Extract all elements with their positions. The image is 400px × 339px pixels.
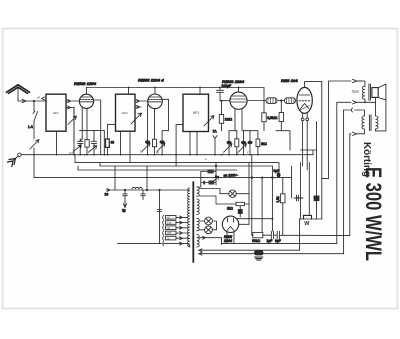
node choke junction (280, 99, 282, 101)
wire box3 feed (176, 125, 183, 166)
tube2 pins (147, 105, 149, 141)
bottom rail 4 (199, 253, 344, 255)
svg-text:HF1: HF1 (53, 111, 59, 115)
ground bus (21, 154, 313, 156)
pins box3 bottom (189, 132, 191, 155)
tube RENS 1264 (148, 94, 163, 109)
tube RENS 1254 (79, 94, 93, 108)
svg-text:RES 164: RES 164 (281, 78, 298, 83)
cap 3 (157, 210, 161, 212)
drop to box3 (199, 88, 201, 95)
tube4 pins (302, 113, 304, 118)
rectifier RGN 1064 (222, 216, 238, 232)
output transformer (355, 100, 386, 134)
svg-text:2μ: 2μ (122, 209, 126, 213)
capacitor C4 (145, 140, 150, 144)
variable tuning arrow box3 (204, 116, 214, 127)
tube3 anode wire (238, 88, 240, 93)
wire transformer bottom (350, 133, 351, 135)
resistor 40 (106, 125, 116, 155)
tube RENS 1284 (230, 92, 247, 109)
resistor 1k (236, 202, 244, 205)
wire cluster A rail (80, 130, 105, 154)
coil box HF2 (116, 94, 136, 131)
resistor R3 (153, 139, 157, 147)
lead to dial lamp row (200, 196, 232, 204)
coupling drop (280, 101, 282, 113)
divider 50k (252, 232, 263, 243)
RF choke Dr2 (285, 98, 296, 104)
wire screen feed horizontal (301, 149, 317, 151)
wire to ground bus (33, 148, 35, 178)
heater tap row 1 (40) (162, 215, 165, 219)
lower bus 3 (100, 165, 272, 167)
rectifier plate wire (239, 166, 249, 224)
heater tap rows (118, 215, 190, 247)
wire screen feed vertical (316, 122, 318, 197)
svg-text:an 220V~: an 220V~ (224, 174, 239, 178)
svg-text:1kΩ: 1kΩ (227, 207, 233, 211)
cap block (238, 210, 242, 214)
svg-text:0,5MΩ: 0,5MΩ (267, 116, 278, 120)
tube1 anode wire to top bus (86, 88, 88, 95)
AF coupling line (115, 166, 189, 190)
mains plug (255, 251, 264, 260)
svg-text:LA: LA (28, 124, 33, 129)
wire choke line (247, 100, 284, 102)
capacitor C10 (247, 141, 252, 144)
wire B+ vertical 4 (282, 178, 284, 236)
mains input riser (215, 163, 217, 185)
field resistor 1.5k (281, 194, 285, 203)
ground (8, 153, 22, 167)
heater tap row 4 (200) (162, 231, 165, 235)
wavetrap tap (213, 136, 217, 155)
trimmer cap C1 (78, 139, 84, 155)
capacitor C8 (226, 141, 231, 144)
cap to arrow (123, 190, 127, 202)
mains switch (213, 176, 219, 182)
svg-text:HF2: HF2 (122, 111, 128, 115)
junction dots bus5 (251, 176, 253, 178)
svg-text:8μF: 8μF (275, 239, 281, 243)
wire transformer primary top (344, 109, 351, 111)
power transformer (188, 182, 200, 262)
tube RES 164 (297, 87, 312, 113)
lower bus 4 (78, 169, 237, 171)
cap 100pF (217, 84, 232, 101)
wire cluster C rail (229, 130, 258, 132)
svg-text:2μF: 2μF (267, 239, 273, 243)
svg-text:1,5k: 1,5k (276, 196, 280, 202)
pilot lamp 2 (200, 221, 217, 234)
variable tuning arrow box1 (68, 116, 77, 125)
svg-text:E 300 W/WL: E 300 W/WL (361, 167, 386, 261)
wire tube1 anode to AF (94, 100, 101, 155)
micro value marks (37, 96, 249, 162)
speaker line vertical (328, 81, 330, 178)
top bus (87, 87, 265, 89)
bus corner down to choke line (263, 88, 265, 101)
wire rectifier cathode feed (237, 218, 273, 220)
smoothing cap a (294, 195, 303, 201)
bottom rail 2 (222, 243, 337, 245)
wire B+ vertical 2 / junction (261, 178, 263, 232)
connector arrow (353, 79, 363, 82)
switch LA (34, 112, 38, 122)
wire grid tube3 (220, 100, 230, 102)
resistor R1 (85, 140, 89, 147)
cap 8uF b (277, 231, 350, 239)
wire (33, 121, 35, 139)
tube2 anode wire (154, 88, 156, 95)
svg-text:RENS 1264 d: RENS 1264 d (138, 78, 164, 83)
heater tap row 5 (2u) (162, 236, 165, 240)
svg-text:30: 30 (105, 193, 109, 197)
svg-text:40: 40 (111, 141, 115, 145)
lower bus 5 (34, 177, 292, 179)
long vertical anode feed (321, 82, 323, 219)
wire junction down (33, 101, 35, 111)
arrows box1 right (66, 100, 79, 103)
svg-text:HF3: HF3 (193, 111, 199, 115)
field coil W (300, 215, 322, 226)
svg-text:RENS 1284: RENS 1284 (222, 79, 245, 84)
svg-text:7A: 7A (213, 130, 218, 134)
vertical to bottom (336, 102, 338, 243)
cap 2uF (263, 231, 277, 239)
loudspeaker (352, 81, 386, 116)
svg-text:8μF: 8μF (274, 169, 280, 173)
svg-text:1kΩ: 1kΩ (261, 142, 267, 146)
svg-text:1MΩ: 1MΩ (225, 118, 233, 122)
wire B+ vertical 5 (291, 166, 293, 198)
trimmer cap C2 (91, 139, 96, 155)
bottom rail 3 (199, 249, 300, 251)
grid resistor drop (263, 101, 265, 113)
pilot lamp 1 (200, 217, 213, 225)
dial lamp (220, 190, 249, 197)
wire antenna to input (18, 100, 46, 102)
tube4 plate wire (305, 82, 322, 88)
coil box HF3 (183, 94, 209, 131)
svg-text:RENS 1254: RENS 1254 (74, 81, 97, 86)
capacitor C5 (160, 140, 165, 144)
svg-text:3-30: 3-30 (69, 151, 75, 155)
node (124, 189, 126, 191)
mains fuse 2 (214, 182, 216, 184)
rectifier filament loop (200, 236, 222, 244)
coil box HF1 (46, 94, 66, 131)
arrows box2 right (135, 100, 148, 103)
coil (132, 187, 142, 189)
variable tuning arrow box2 (131, 113, 142, 124)
wire speaker mid (337, 101, 351, 103)
tube3 pins (234, 109, 236, 131)
heater tap row 3 (40) (162, 226, 165, 230)
svg-text:200: 200 (167, 231, 172, 235)
resistor R5 (235, 139, 239, 147)
node A (antenna junction) (33, 100, 35, 102)
arrow down (123, 202, 127, 208)
capacitor C9 (241, 141, 246, 144)
feed vertical (159, 190, 161, 244)
rectifier filament pins (227, 232, 234, 243)
wire bus riser (312, 150, 314, 155)
wire B+ vertical 6 (300, 163, 302, 219)
connector arrow on antenna wire (22, 99, 26, 102)
heater tap row 6 (162, 242, 165, 246)
link (322, 177, 329, 179)
variable coupling arrow (30, 140, 39, 150)
wire box1 arrow feed (73, 108, 75, 155)
wire to speaker top (329, 80, 352, 82)
grid leak 1M (219, 100, 232, 131)
svg-text:125: 125 (167, 221, 172, 225)
cap 2 (141, 190, 145, 200)
wire (73, 107, 75, 141)
cap 8uF label (277, 173, 281, 178)
resistor R6 1k (256, 139, 260, 147)
smoothing cap b (block) (314, 196, 319, 201)
svg-text:Spul: Spul (352, 90, 359, 94)
wire B+ vertical 1 (251, 155, 253, 236)
wire B+ vertical 7 (308, 163, 310, 216)
svg-text:1064: 1064 (224, 239, 232, 243)
wire B+ vertical 3 (271, 166, 273, 231)
tube1 pins (81, 108, 83, 139)
pins box2 bottom (120, 131, 122, 155)
svg-text:2μ: 2μ (167, 236, 170, 240)
lower bus 2 (75, 162, 279, 164)
svg-text:100pF: 100pF (222, 84, 232, 88)
wire tube2 anode (162, 99, 168, 140)
drop to box2 (128, 88, 130, 95)
vertical from bus (146, 166, 148, 190)
heater tap row 2 (125) (162, 221, 165, 225)
entry mark (42, 97, 45, 100)
svg-text:50kΩ: 50kΩ (252, 239, 260, 243)
bus junction dots (33, 154, 35, 156)
antenna (7, 85, 30, 101)
RF choke Dr1 (266, 98, 277, 104)
svg-text:μF: μF (37, 96, 40, 100)
mains fuse 1 (214, 171, 216, 173)
pin box1 bottom (56, 131, 58, 155)
